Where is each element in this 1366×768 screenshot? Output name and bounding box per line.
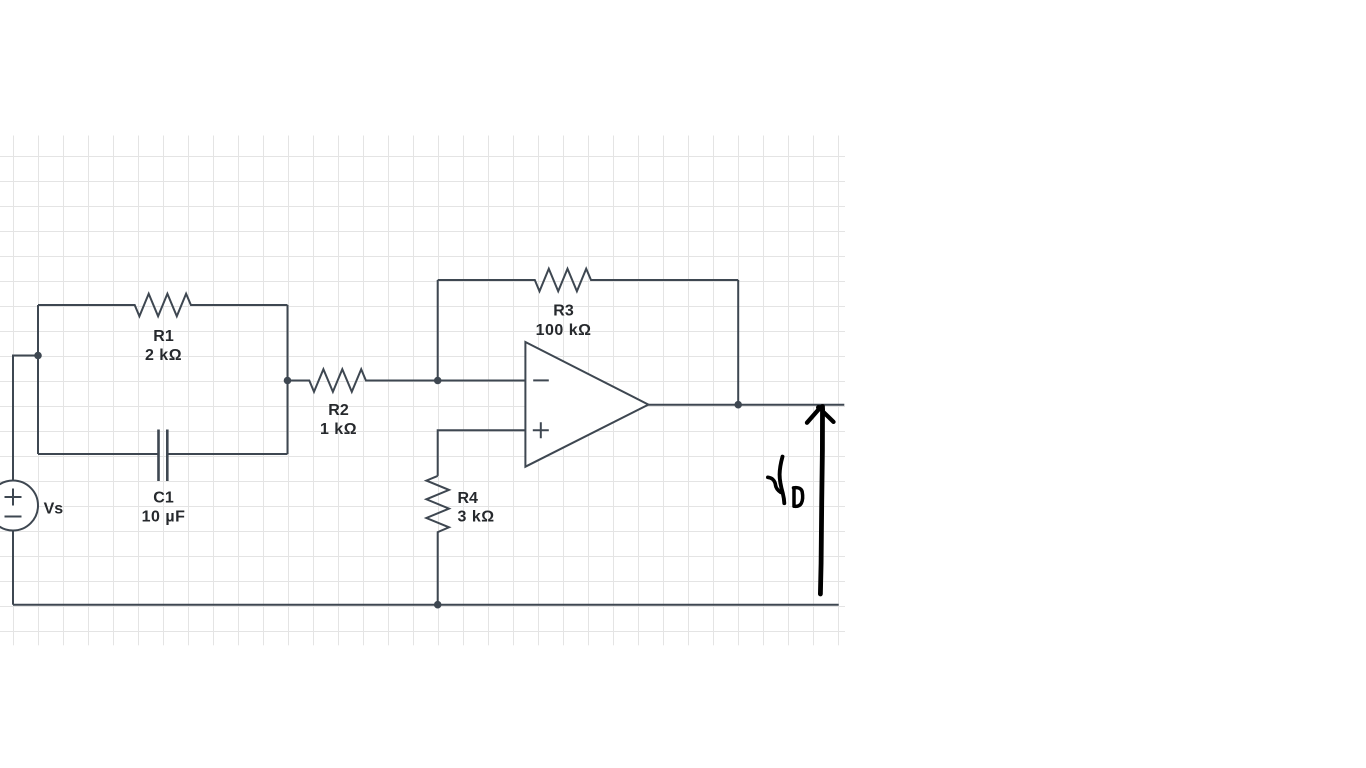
node D (feedback to output): [734, 401, 742, 409]
label R4 value 3 kOhm: [458, 490, 495, 526]
node A (source to R1/C1): [34, 352, 42, 360]
label C1 value 10 uF: [142, 490, 186, 526]
resistor R2: [288, 369, 438, 392]
label R3 value 100 kOhm: [536, 303, 592, 339]
svg-text:Vs: Vs: [44, 500, 64, 517]
svg-text:100 kΩ: 100 kΩ: [536, 322, 592, 339]
capacitor C1: [38, 430, 288, 482]
op-amp non-inverting input marker: [533, 422, 549, 438]
node B (R1/C1 to R2): [284, 377, 292, 385]
svg-text:2 kΩ: 2 kΩ: [145, 347, 182, 364]
wire op-amp output: [648, 404, 844, 406]
voltage source Vs: [0, 481, 38, 531]
svg-text:R4: R4: [458, 490, 479, 507]
hand-drawn label V (of Vo): [780, 457, 785, 504]
svg-text:R3: R3: [553, 303, 574, 320]
svg-text:1 kΩ: 1 kΩ: [320, 421, 357, 438]
wire feedback right vertical: [737, 280, 739, 405]
svg-text:10 µF: 10 µF: [142, 509, 186, 526]
label R1 value 2 kOhm: [145, 328, 182, 364]
hand-drawn arrowhead: [807, 407, 834, 423]
node C (R2 / R3 / inverting input): [434, 377, 442, 385]
svg-text:C1: C1: [153, 490, 174, 507]
wire from Vs bottom down to rail: [12, 531, 14, 605]
wire right side of R1/C1 loop: [287, 305, 289, 454]
op-amp inverting input marker: [533, 379, 549, 381]
resistor R4: [426, 476, 449, 605]
wire from non-inverting input down to R4: [438, 430, 526, 476]
resistor R3: [438, 269, 739, 292]
resistor R1: [38, 294, 288, 317]
wire left side of R1/C1 loop: [37, 305, 39, 454]
wire to inverting input: [438, 380, 526, 382]
hand-drawn output arrow shaft: [820, 407, 822, 595]
svg-text:3 kΩ: 3 kΩ: [458, 508, 495, 525]
label R2 value 1 kOhm: [320, 402, 357, 438]
node E (R4 to ground rail): [434, 601, 442, 609]
wire from Vs top up the left side: [13, 356, 38, 481]
op-amp U1: [525, 342, 648, 467]
svg-text:R1: R1: [153, 328, 174, 345]
svg-text:R2: R2: [328, 402, 349, 419]
hand-drawn label o subscript (of Vo): [794, 488, 803, 507]
wire bottom rail: [13, 604, 839, 606]
wire feedback left vertical: [437, 280, 439, 381]
